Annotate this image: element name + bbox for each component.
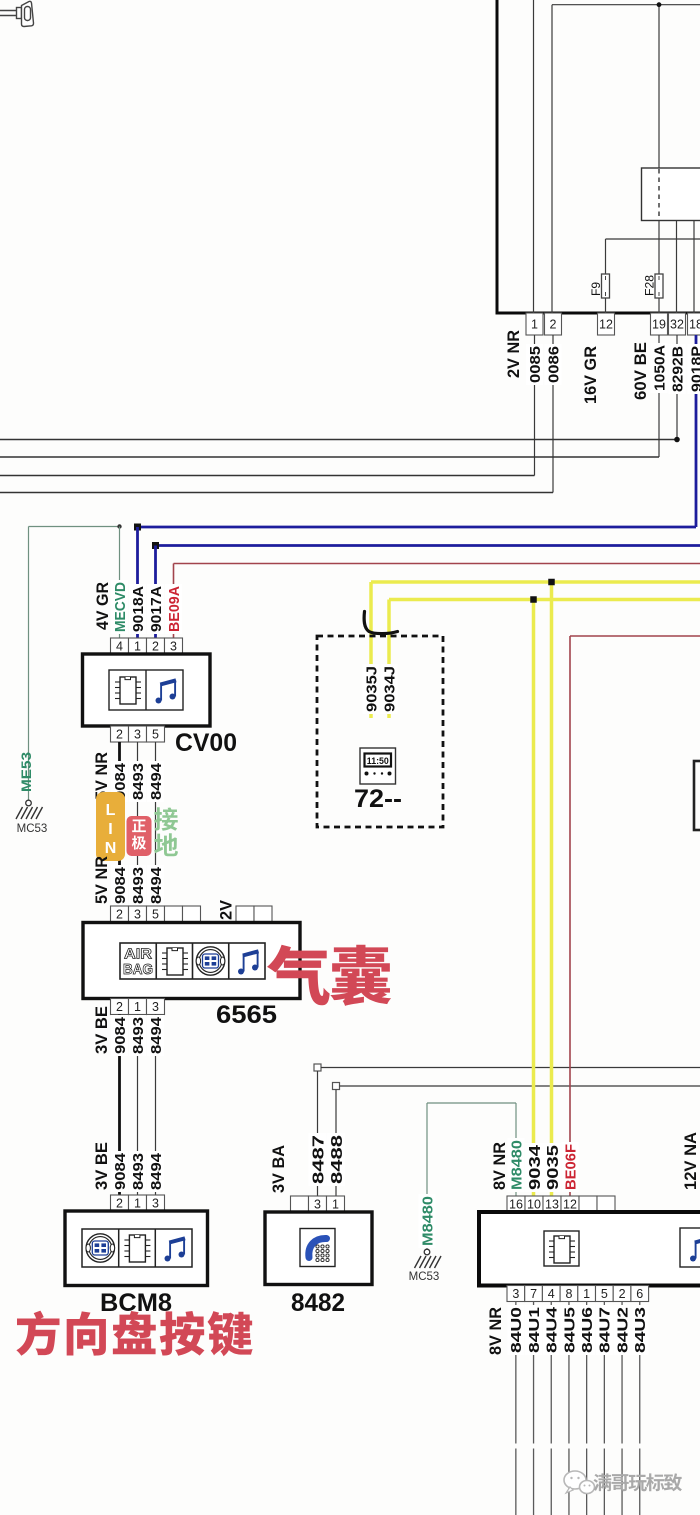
svg-text:6: 6	[636, 1287, 643, 1301]
svg-text:8292B: 8292B	[669, 346, 686, 392]
svg-text:2: 2	[152, 639, 159, 653]
svg-text:16V GR: 16V GR	[581, 346, 600, 404]
svg-text:8493: 8493	[130, 1153, 147, 1190]
svg-text:8487: 8487	[310, 1135, 327, 1184]
svg-text:10: 10	[527, 1197, 541, 1211]
svg-text:9034: 9034	[527, 1145, 544, 1190]
svg-text:I: I	[108, 821, 112, 838]
svg-text:3: 3	[152, 1196, 159, 1210]
svg-text:3V BA: 3V BA	[269, 1145, 288, 1193]
svg-text:3V BE: 3V BE	[92, 1006, 111, 1054]
svg-text:32: 32	[670, 317, 684, 331]
svg-text:5: 5	[152, 727, 159, 741]
svg-text:1: 1	[134, 1000, 141, 1014]
svg-text:11:50: 11:50	[367, 756, 389, 767]
svg-text:ME53: ME53	[18, 752, 34, 792]
svg-text:3: 3	[134, 907, 141, 921]
svg-text:9084: 9084	[112, 1152, 129, 1190]
svg-text:1: 1	[531, 317, 538, 331]
svg-text:2: 2	[550, 317, 557, 331]
svg-text:2V NR: 2V NR	[504, 330, 523, 378]
svg-text:BE06F: BE06F	[562, 1144, 579, 1190]
svg-text:12: 12	[563, 1197, 577, 1211]
svg-text:N: N	[105, 840, 117, 857]
svg-text:84U0: 84U0	[508, 1307, 525, 1353]
svg-text:6565: 6565	[216, 1001, 277, 1029]
svg-text:2: 2	[116, 727, 123, 741]
svg-text:60V BE: 60V BE	[631, 342, 650, 400]
svg-text:5: 5	[152, 907, 159, 921]
svg-text:BE09A: BE09A	[166, 586, 183, 632]
svg-text:8494: 8494	[148, 762, 165, 800]
svg-text:18: 18	[689, 317, 700, 331]
svg-text:BAG: BAG	[123, 961, 153, 978]
svg-text:M8480: M8480	[419, 1196, 436, 1246]
svg-text:84U2: 84U2	[614, 1307, 631, 1353]
svg-text:84U5: 84U5	[561, 1307, 578, 1353]
svg-text:2V: 2V	[217, 899, 236, 920]
svg-text:72--: 72--	[354, 785, 402, 813]
svg-text:0085: 0085	[527, 346, 544, 383]
svg-text:4V GR: 4V GR	[93, 582, 112, 630]
svg-text:2: 2	[116, 907, 123, 921]
svg-text:3: 3	[512, 1287, 519, 1301]
svg-text:MC53: MC53	[409, 1271, 440, 1283]
svg-text:8494: 8494	[148, 1152, 165, 1190]
svg-text:19: 19	[652, 317, 666, 331]
svg-text:7: 7	[530, 1287, 537, 1301]
svg-text:8493: 8493	[130, 867, 147, 904]
svg-text:9034J: 9034J	[381, 666, 398, 712]
svg-text:MC53: MC53	[17, 823, 48, 835]
svg-text:8482: 8482	[291, 1289, 345, 1317]
svg-text:8V NR: 8V NR	[490, 1142, 509, 1190]
svg-text:12V NA: 12V NA	[681, 1132, 700, 1190]
svg-text:9017A: 9017A	[148, 586, 165, 632]
svg-text:8V NR: 8V NR	[486, 1307, 505, 1355]
svg-text:12: 12	[599, 317, 613, 331]
svg-text:5V NR: 5V NR	[92, 856, 111, 904]
svg-text:9035: 9035	[545, 1145, 562, 1190]
svg-text:84U1: 84U1	[526, 1307, 543, 1353]
svg-text:2: 2	[116, 1000, 123, 1014]
svg-text:L: L	[106, 802, 116, 819]
svg-text:2: 2	[619, 1287, 626, 1301]
svg-text:1050A: 1050A	[651, 345, 668, 391]
svg-text:CV00: CV00	[175, 729, 237, 757]
svg-text:F28: F28	[642, 275, 656, 296]
svg-text:1: 1	[134, 1196, 141, 1210]
svg-text:5: 5	[601, 1287, 608, 1301]
svg-text:13: 13	[545, 1197, 559, 1211]
svg-text:MECVD: MECVD	[112, 582, 129, 632]
svg-text:8: 8	[565, 1287, 572, 1301]
svg-text:9035J: 9035J	[363, 666, 380, 712]
svg-text:3V BE: 3V BE	[92, 1142, 111, 1190]
svg-text:9018P: 9018P	[688, 346, 700, 392]
svg-text:1: 1	[583, 1287, 590, 1301]
svg-text:8494: 8494	[148, 866, 165, 904]
svg-text:8493: 8493	[130, 763, 147, 800]
svg-text:3: 3	[314, 1197, 321, 1211]
svg-text:9084: 9084	[112, 1016, 129, 1054]
svg-text:3: 3	[152, 1000, 159, 1014]
svg-text:3: 3	[134, 727, 141, 741]
svg-text:84U3: 84U3	[632, 1307, 649, 1353]
svg-text:84U6: 84U6	[579, 1307, 596, 1353]
svg-text:9018A: 9018A	[130, 586, 147, 632]
svg-text:1: 1	[332, 1197, 339, 1211]
svg-text:1: 1	[134, 639, 141, 653]
svg-text:M8480: M8480	[508, 1140, 525, 1190]
svg-text:F9: F9	[589, 282, 603, 296]
svg-text:84U7: 84U7	[597, 1307, 614, 1353]
svg-text:2: 2	[116, 1196, 123, 1210]
svg-text:AIR: AIR	[124, 946, 152, 963]
svg-text:16: 16	[509, 1197, 523, 1211]
svg-text:0086: 0086	[545, 346, 562, 383]
svg-text:9084: 9084	[112, 866, 129, 904]
svg-text:8493: 8493	[130, 1017, 147, 1054]
svg-text:84U4: 84U4	[544, 1306, 561, 1353]
svg-text:8494: 8494	[148, 1016, 165, 1054]
svg-text:4: 4	[548, 1287, 555, 1301]
svg-text:4: 4	[116, 639, 123, 653]
svg-text:8488: 8488	[329, 1135, 346, 1184]
svg-text:3: 3	[170, 639, 177, 653]
